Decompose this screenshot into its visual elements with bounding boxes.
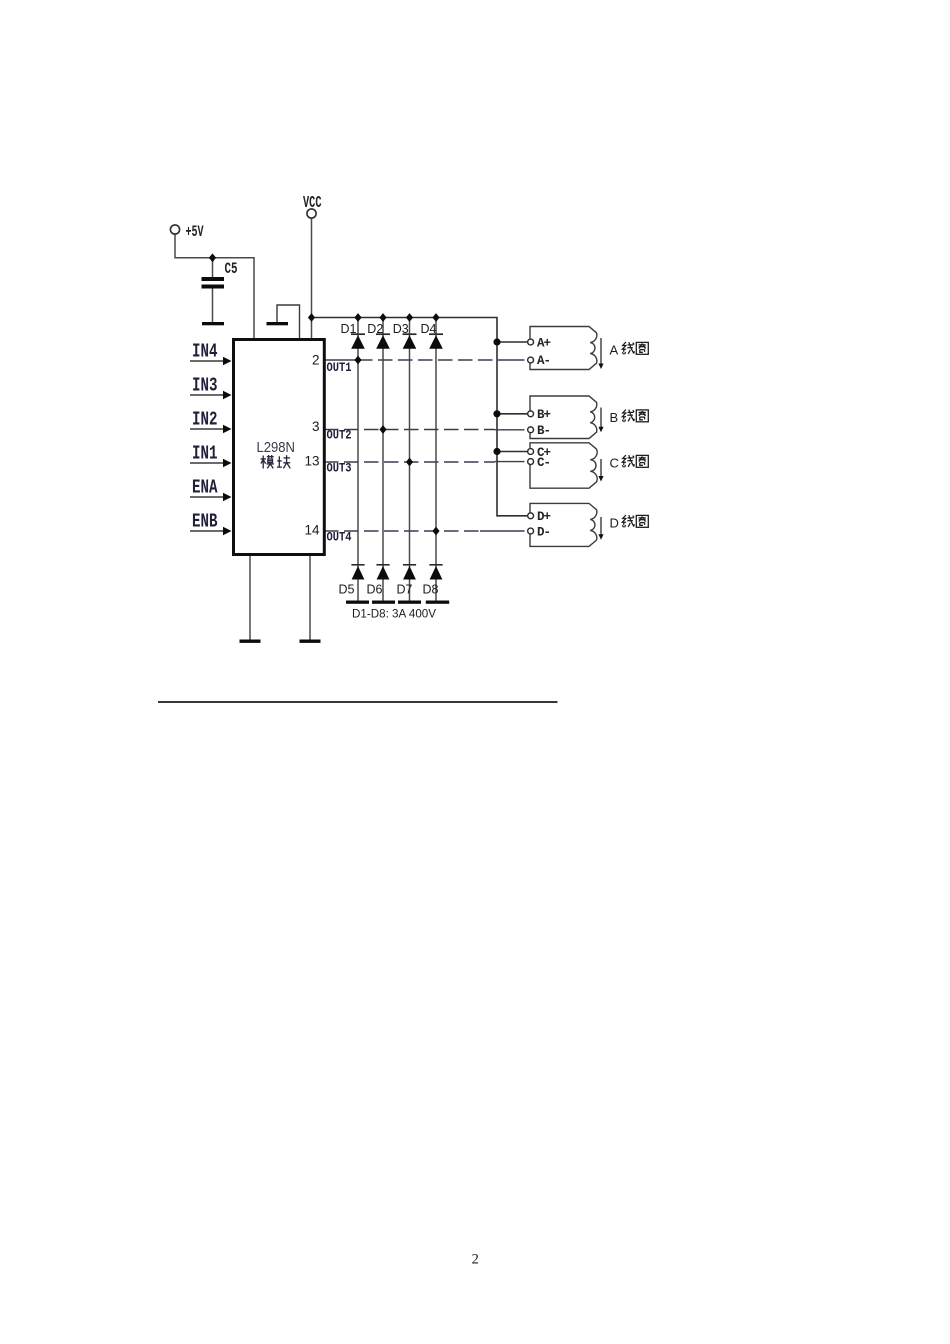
- svg-text:OUT1: OUT1: [327, 360, 352, 375]
- svg-text:C: C: [610, 455, 619, 470]
- svg-text:D2: D2: [367, 322, 383, 336]
- svg-text:OUT3: OUT3: [327, 461, 352, 476]
- svg-text:D6: D6: [367, 583, 383, 597]
- svg-text:ENB: ENB: [192, 511, 218, 533]
- svg-text:IN3: IN3: [192, 375, 218, 397]
- svg-text:IN1: IN1: [192, 443, 218, 465]
- svg-text:D-: D-: [537, 525, 550, 539]
- svg-text:C5: C5: [225, 260, 238, 278]
- svg-text:D7: D7: [397, 583, 413, 597]
- svg-text:A-: A-: [537, 354, 550, 368]
- svg-text:L298N: L298N: [257, 440, 296, 456]
- svg-text:D8: D8: [423, 583, 439, 597]
- svg-text:3: 3: [312, 419, 320, 434]
- svg-text:A: A: [610, 342, 619, 357]
- svg-text:B-: B-: [537, 424, 550, 438]
- svg-text:IN2: IN2: [192, 409, 218, 431]
- svg-text:IN4: IN4: [192, 341, 218, 363]
- svg-text:B: B: [610, 410, 619, 425]
- svg-text:13: 13: [304, 454, 319, 469]
- svg-text:+5V: +5V: [186, 223, 204, 241]
- svg-text:D: D: [610, 515, 619, 530]
- svg-text:OUT4: OUT4: [327, 530, 352, 545]
- svg-text:D3: D3: [393, 322, 409, 336]
- svg-text:C-: C-: [537, 456, 550, 470]
- svg-text:ENA: ENA: [192, 477, 218, 499]
- svg-text:A+: A+: [537, 336, 551, 350]
- svg-text:14: 14: [304, 523, 320, 538]
- svg-text:2: 2: [312, 353, 320, 368]
- svg-text:D4: D4: [421, 322, 437, 336]
- svg-text:OUT2: OUT2: [327, 428, 352, 443]
- svg-text:D1: D1: [341, 322, 357, 336]
- svg-text:D1-D8: 3A 400V: D1-D8: 3A 400V: [352, 607, 436, 621]
- svg-text:VCC: VCC: [303, 194, 322, 213]
- svg-text:D5: D5: [339, 583, 355, 597]
- svg-text:B+: B+: [537, 408, 551, 422]
- svg-text:D+: D+: [537, 510, 551, 524]
- svg-text:2: 2: [472, 1252, 479, 1268]
